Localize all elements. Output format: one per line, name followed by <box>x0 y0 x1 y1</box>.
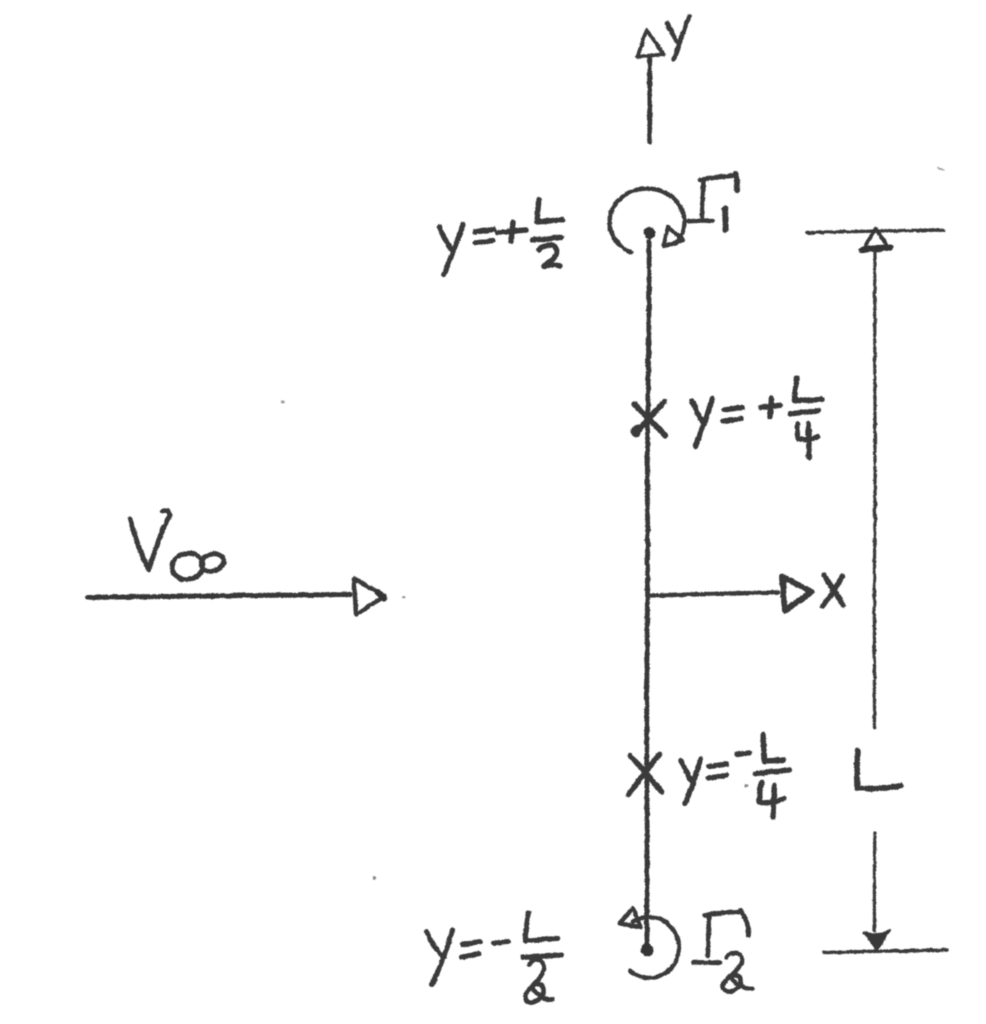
vortex G2 arc <box>630 917 679 978</box>
stray speck 5 <box>744 784 747 787</box>
vortex G1 center dot <box>643 227 655 239</box>
y-axis label y <box>667 16 690 59</box>
V-infinity label <box>130 510 226 583</box>
label y=+L/4 <box>692 378 822 458</box>
V-infinity line <box>88 595 350 598</box>
stray speck 1 <box>282 401 285 404</box>
stray speck 4 <box>938 168 944 170</box>
x-axis arrowhead <box>782 577 812 611</box>
gamma2 label <box>694 911 753 992</box>
vortex G2 arrowhead <box>620 908 641 927</box>
vortex G1 arc <box>610 189 685 253</box>
y-axis arrowhead <box>638 30 664 57</box>
vortex G2 center dot <box>641 944 654 957</box>
stray speck 2 <box>372 876 375 879</box>
dimension top tick <box>807 230 943 233</box>
label y=-L/4 <box>681 735 790 818</box>
y-axis line <box>647 57 652 142</box>
dimension vertical line upper <box>873 251 877 727</box>
dimension bottom arrowhead <box>865 931 890 950</box>
dimension label L <box>857 751 901 789</box>
lifting line (main vertical) <box>647 241 649 944</box>
V-infinity arrowhead <box>354 579 385 615</box>
label y=-L/2 <box>427 913 562 1002</box>
vortex G1 arrowhead <box>664 227 684 247</box>
dimension vertical line lower <box>873 833 877 931</box>
X mark at y=+L/4 <box>634 402 666 436</box>
dimension top arrowhead <box>863 229 889 250</box>
stray speck 3 <box>403 596 406 599</box>
dimension bottom tick <box>824 950 947 953</box>
X mark at y=-L/4 <box>629 755 662 795</box>
gamma1 label <box>688 174 737 230</box>
label y=+L/2 <box>440 200 563 275</box>
x-axis line <box>647 593 778 596</box>
x-axis label x <box>823 575 844 606</box>
